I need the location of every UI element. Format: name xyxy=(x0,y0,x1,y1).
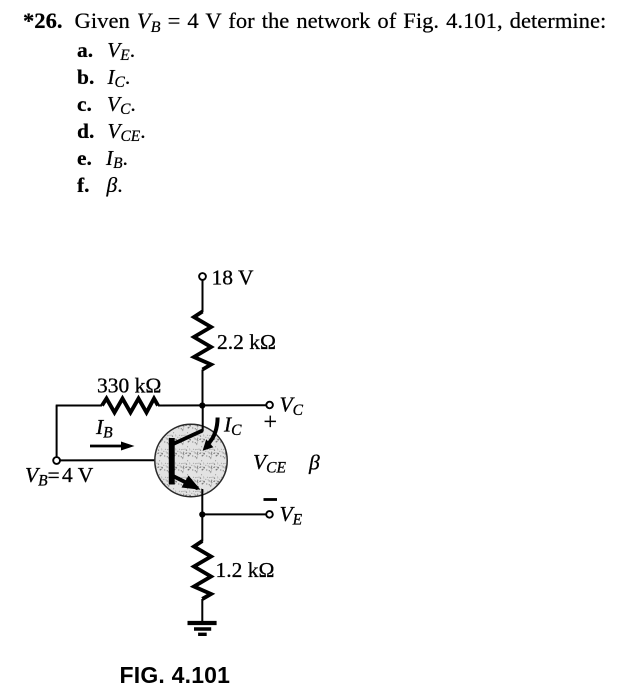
svg-text:18 V: 18 V xyxy=(212,266,254,290)
transistor Q1 base bar xyxy=(169,438,175,485)
wire emitter xyxy=(201,489,203,515)
svg-text:VCE: VCE xyxy=(253,450,286,477)
svg-text:IB: IB xyxy=(95,415,113,442)
svg-text:330 kΩ: 330 kΩ xyxy=(97,374,161,398)
item f xyxy=(77,175,123,197)
terminal VC open circle xyxy=(266,402,273,409)
junction node E dot xyxy=(199,511,205,517)
svg-text:β: β xyxy=(308,451,320,475)
item b xyxy=(77,67,130,89)
resistor R1 2.2k zigzag xyxy=(194,312,211,370)
terminal VB open circle xyxy=(53,457,60,464)
svg-text:VE: VE xyxy=(280,502,303,529)
wire node E to R3 xyxy=(201,515,203,542)
wire R2 to VC terminal xyxy=(158,404,266,406)
resistor R2 330k zigzag xyxy=(102,399,158,413)
item e xyxy=(77,148,128,170)
wire 18V to R1 xyxy=(202,280,204,312)
wire R1 to node C xyxy=(202,370,204,407)
arrow IC curved xyxy=(203,418,218,451)
caption FIG. 4.101 xyxy=(120,662,231,689)
wire base xyxy=(60,459,169,461)
svg-text:VC: VC xyxy=(280,393,304,420)
svg-text:IC: IC xyxy=(223,413,242,440)
svg-text:VB=4 V: VB=4 V xyxy=(25,463,94,490)
svg-text:2.2 kΩ: 2.2 kΩ xyxy=(217,330,276,354)
resistor R3 1.2k zigzag xyxy=(194,541,211,599)
transistor Q1 collector stroke xyxy=(172,431,203,445)
junction node C dot xyxy=(199,402,205,408)
node 18V terminal xyxy=(199,273,206,280)
transistor Q1 body circle xyxy=(155,424,227,496)
svg-text:+: + xyxy=(264,410,278,436)
wire collector xyxy=(202,403,204,432)
item c xyxy=(77,94,136,116)
wire left to R2 xyxy=(56,405,102,407)
wire node E to VE terminal xyxy=(202,513,266,515)
item a xyxy=(77,40,135,62)
ground symbol xyxy=(188,623,217,634)
wire VB vertical xyxy=(56,406,58,458)
terminal VE open circle xyxy=(266,511,273,518)
transistor Q1 emitter stroke xyxy=(172,476,198,489)
wire R3 to ground xyxy=(201,599,203,622)
transistor Q1 emitter arrowhead xyxy=(182,476,201,490)
svg-text:1.2 kΩ: 1.2 kΩ xyxy=(216,558,275,582)
problem statement line 1 xyxy=(23,10,606,33)
arrow IB xyxy=(90,442,135,451)
minus sign above VE xyxy=(264,498,278,501)
item d xyxy=(77,121,146,143)
